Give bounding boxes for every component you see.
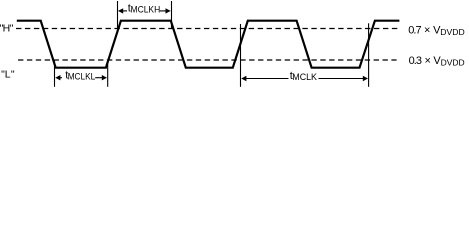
tMCLKL right arrow [102, 75, 107, 80]
svg-text:DVDD: DVDD [440, 27, 464, 37]
tMCLKH measurement extension line right [171, 1, 173, 28]
svg-text:×: × [425, 55, 431, 67]
svg-text:MCLK: MCLK [292, 72, 317, 82]
svg-text:0.3: 0.3 [409, 55, 422, 67]
tMCLKL left arrow [55, 75, 60, 80]
svg-text:L: L [5, 69, 11, 81]
tMCLK right arrow [363, 76, 368, 81]
tMCLKH right arrow [166, 8, 171, 13]
svg-text:DVDD: DVDD [441, 58, 465, 68]
svg-text:MCLKL: MCLKL [68, 72, 96, 82]
tMCLKH measurement extension line left [117, 1, 119, 28]
svg-text:0.7: 0.7 [408, 25, 421, 37]
wire: 0.3 VDVDD dashed threshold line [18, 59, 397, 61]
wire: MCLK clock waveform [17, 21, 400, 68]
wire: 0.7 VDVDD dashed threshold line [16, 28, 397, 30]
tMCLK measurement extension line left [240, 24, 242, 87]
tMCLK measurement extension line right [368, 23, 370, 87]
tMCLKL measurement extension line right [107, 60, 109, 87]
svg-text:×: × [424, 25, 430, 37]
tMCLKH left arrow [118, 8, 123, 13]
tMCLKL measurement extension line left [54, 60, 56, 87]
svg-text:": " [10, 23, 14, 35]
svg-text:": " [11, 69, 15, 81]
tMCLK left arrow [241, 76, 246, 81]
svg-text:MCLKH: MCLKH [131, 5, 161, 15]
